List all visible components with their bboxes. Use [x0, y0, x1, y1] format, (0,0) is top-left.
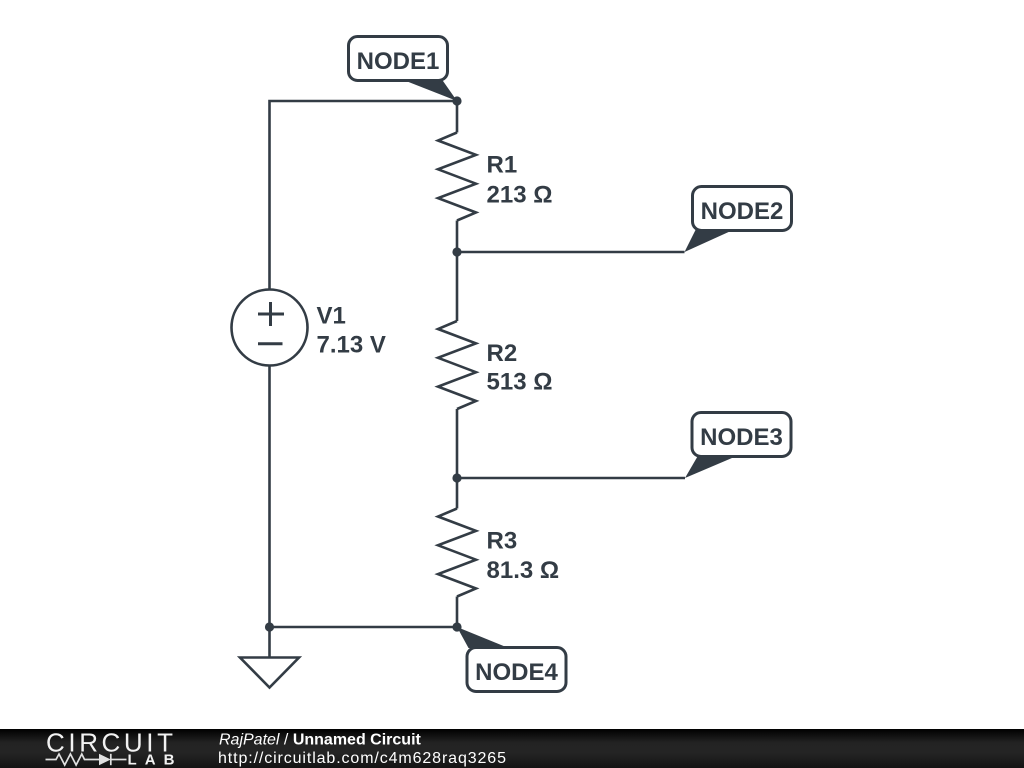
node NODE1 junction dot [452, 96, 461, 105]
node NODE2 junction dot [452, 247, 461, 256]
wire top horizontal NODE1 and left vertical upper [270, 101, 458, 290]
node NODE4 junction dot right [452, 622, 461, 631]
node label NODE4 pointer [457, 627, 509, 648]
node label NODE1 pointer [406, 81, 457, 101]
CircuitLab logo diode triangle [99, 754, 111, 765]
resistor R2 [438, 321, 476, 409]
svg-text:513 Ω: 513 Ω [487, 369, 553, 396]
svg-text:NODE4: NODE4 [475, 659, 558, 686]
ground [240, 658, 299, 688]
svg-text:NODE2: NODE2 [701, 198, 784, 225]
wire R2 to NODE3 junction [456, 409, 459, 478]
wire NODE3 junction to R3 [456, 478, 459, 509]
svg-text:NODE3: NODE3 [700, 424, 783, 451]
voltage source V1 circle [232, 290, 308, 366]
node label NODE3 pointer [685, 457, 736, 479]
svg-text:LAB: LAB [128, 752, 175, 768]
node label NODE1 box [349, 37, 448, 81]
wire NODE4 junction to ground [268, 627, 271, 658]
V1 plus sign [258, 302, 284, 326]
node label NODE3 box [692, 413, 791, 457]
wire NODE3 horizontal [457, 477, 685, 480]
svg-text:7.13 V: 7.13 V [317, 332, 386, 359]
svg-text:V1: V1 [317, 303, 346, 330]
node label NODE2 box [693, 187, 792, 231]
CircuitLab logo symbol row (resistor + diode) [46, 754, 127, 765]
node NODE4 junction dot left (ground) [265, 622, 274, 631]
footer bar [0, 729, 1024, 768]
node label NODE4 box [467, 648, 566, 692]
svg-text:81.3 Ω: 81.3 Ω [487, 557, 560, 584]
wire R1 to NODE2 junction [456, 221, 459, 253]
svg-text:http://circuitlab.com/c4m628ra: http://circuitlab.com/c4m628raq3265 [218, 750, 506, 767]
wire right vertical NODE1 to R1 [456, 101, 459, 133]
V1 minus sign [258, 342, 283, 345]
svg-text:R2: R2 [487, 340, 518, 367]
node label NODE2 pointer [685, 230, 734, 252]
resistor R3 [438, 509, 476, 597]
wire NODE2 horizontal [457, 251, 685, 254]
svg-text:R1: R1 [487, 151, 518, 178]
svg-text:NODE1: NODE1 [357, 48, 440, 75]
svg-text:R3: R3 [487, 527, 518, 554]
svg-text:213 Ω: 213 Ω [487, 182, 553, 209]
wire left vertical lower and bottom horizontal NODE4 [270, 366, 458, 628]
wire NODE2 junction to R2 [456, 252, 459, 321]
resistor R1 [438, 133, 476, 221]
node NODE3 junction dot [452, 473, 461, 482]
svg-text:RajPatel / Unnamed Circuit: RajPatel / Unnamed Circuit [219, 732, 422, 749]
wire R3 to NODE4 junction [456, 597, 459, 628]
